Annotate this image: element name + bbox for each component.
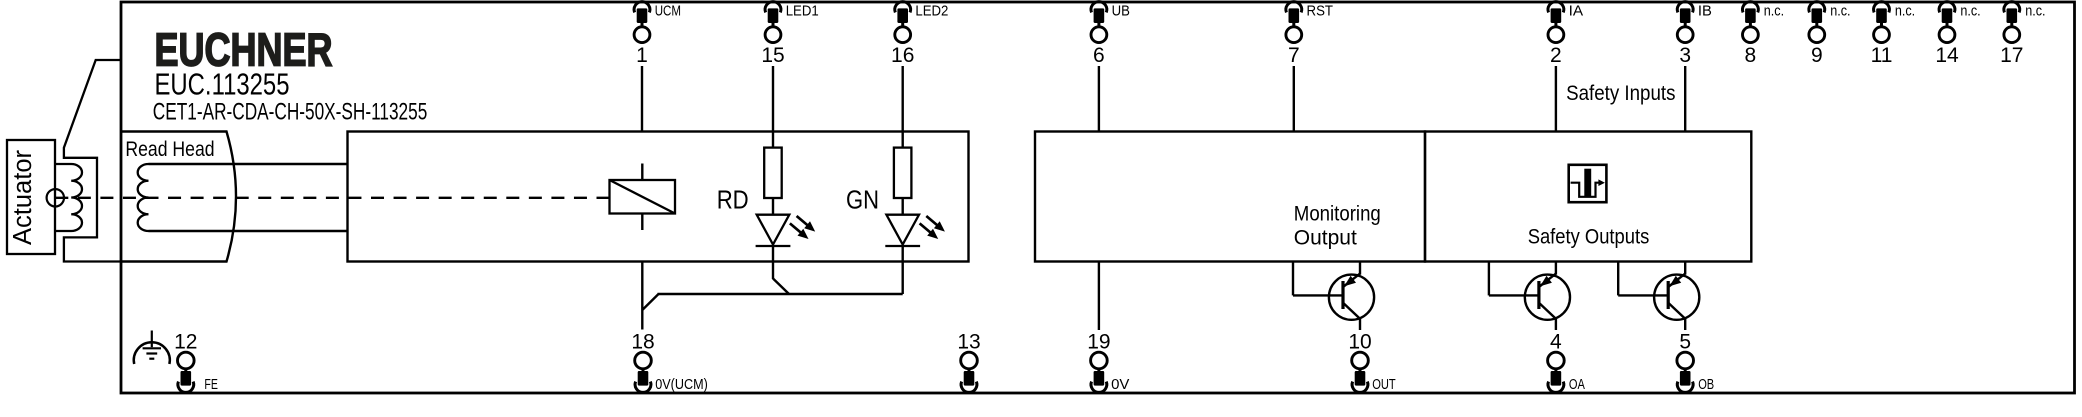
- svg-text:GN: GN: [846, 185, 879, 215]
- svg-text:Actuator: Actuator: [9, 149, 37, 245]
- wire read-head top to control box: [149, 163, 348, 165]
- wire terminal 3 to safety box: [1684, 66, 1686, 132]
- svg-text:2: 2: [1550, 44, 1562, 67]
- actuator coil: [55, 164, 82, 231]
- svg-text:UCM: UCM: [655, 3, 681, 19]
- terminal 16 LED2: [891, 2, 948, 67]
- actuator housing outline: [64, 60, 121, 262]
- svg-text:11: 11: [1871, 44, 1893, 67]
- actuator label: [9, 149, 37, 245]
- terminal 12 FE: [174, 331, 218, 394]
- label Safety Outputs: [1528, 225, 1650, 249]
- svg-text:15: 15: [761, 44, 784, 67]
- type code CET1-AR-CDA-CH-50X-SH-113255: [153, 99, 428, 126]
- svg-text:8: 8: [1745, 44, 1757, 67]
- resistor (GN branch): [894, 148, 912, 198]
- label Monitoring Output: [1294, 202, 1381, 250]
- svg-text:LED1: LED1: [786, 3, 819, 19]
- terminal 5 OB: [1677, 331, 1714, 394]
- svg-text:16: 16: [891, 44, 914, 67]
- transistor Q2 (safety output OA): [1489, 262, 1570, 331]
- svg-text:n.c.: n.c.: [1895, 2, 1915, 19]
- read head box: [121, 132, 236, 262]
- LED GN: [885, 215, 945, 246]
- terminal 3 IB: [1677, 2, 1712, 67]
- svg-text:UB: UB: [1112, 3, 1130, 19]
- svg-text:LED2: LED2: [915, 3, 948, 19]
- LED RD: [756, 215, 816, 246]
- terminal 4 OA: [1548, 331, 1586, 394]
- svg-text:13: 13: [957, 331, 980, 354]
- wire terminal 7 to monitoring box: [1293, 66, 1295, 132]
- svg-text:n.c.: n.c.: [1960, 2, 1980, 19]
- EUCHNER logo: [155, 24, 333, 76]
- svg-text:IA: IA: [1569, 3, 1584, 19]
- svg-text:RST: RST: [1307, 3, 1334, 19]
- svg-text:n.c.: n.c.: [2025, 2, 2045, 19]
- 0V(UCM) bus wire: [658, 293, 903, 295]
- svg-text:FE: FE: [204, 377, 218, 393]
- transistor Q3 (safety output OB): [1618, 262, 1699, 331]
- svg-text:5: 5: [1679, 331, 1691, 354]
- svg-text:0V(UCM): 0V(UCM): [655, 377, 708, 393]
- svg-text:12: 12: [174, 331, 197, 354]
- wire terminal 15 to resistor: [772, 66, 774, 148]
- svg-text:14: 14: [1935, 44, 1959, 67]
- terminal 2 IA: [1548, 2, 1583, 67]
- svg-text:EUC.113255: EUC.113255: [155, 67, 290, 102]
- svg-text:0V: 0V: [1111, 377, 1130, 393]
- terminal 15 LED1: [761, 2, 818, 67]
- terminal 13: [957, 331, 980, 393]
- pulse icon: [1569, 165, 1607, 202]
- svg-text:RD: RD: [717, 185, 749, 215]
- svg-text:19: 19: [1087, 331, 1110, 354]
- svg-text:CET1-AR-CDA-CH-50X-SH-113255: CET1-AR-CDA-CH-50X-SH-113255: [153, 99, 428, 126]
- svg-text:Safety Outputs: Safety Outputs: [1528, 225, 1650, 249]
- wire resistor to LED GN: [902, 198, 904, 215]
- relay K1: [610, 164, 676, 231]
- wire LED RD cathode down: [772, 246, 774, 279]
- control unit box: [348, 132, 969, 262]
- svg-text:18: 18: [631, 331, 654, 354]
- actuator box: [7, 140, 55, 254]
- dashed magnetic coupling centerline: [55, 197, 609, 199]
- wire terminal 6 to monitoring box: [1098, 66, 1100, 132]
- svg-text:OUT: OUT: [1372, 377, 1396, 393]
- wire relay to terminal 18: [641, 262, 643, 330]
- junction tick relay branch: [642, 294, 658, 310]
- svg-text:IB: IB: [1698, 3, 1712, 19]
- svg-text:OA: OA: [1569, 377, 1585, 393]
- terminal 9 n.c.: [1809, 2, 1851, 67]
- terminal 6 UB: [1091, 2, 1130, 67]
- terminal 7 RST: [1286, 2, 1333, 67]
- label Safety Inputs: [1566, 81, 1675, 105]
- svg-text:Read Head: Read Head: [125, 138, 214, 161]
- wire terminal 2 to safety box: [1555, 66, 1557, 132]
- terminal 18 0V(UCM): [631, 331, 707, 394]
- label RD: [717, 185, 749, 215]
- svg-text:3: 3: [1679, 44, 1691, 67]
- svg-text:n.c.: n.c.: [1764, 2, 1784, 19]
- terminal 10 OUT: [1348, 331, 1395, 394]
- wire monitoring box to terminal 19: [1098, 262, 1100, 331]
- transistor Q1 (monitoring output): [1293, 262, 1374, 331]
- svg-text:4: 4: [1550, 331, 1562, 354]
- svg-text:OB: OB: [1698, 377, 1714, 393]
- terminal 19 0V: [1087, 331, 1130, 394]
- label GN: [846, 185, 879, 215]
- terminal 8 n.c.: [1743, 2, 1785, 67]
- svg-text:n.c.: n.c.: [1830, 2, 1850, 19]
- wire terminal 16 to resistor: [902, 66, 904, 148]
- junction tick LED RD branch: [773, 279, 789, 295]
- svg-text:1: 1: [636, 44, 648, 67]
- read head coil: [138, 164, 149, 231]
- svg-text:7: 7: [1288, 44, 1300, 67]
- wire LED GN cathode down: [902, 246, 904, 294]
- wire resistor to LED RD: [772, 198, 774, 215]
- wire read-head bottom to control box: [149, 230, 348, 232]
- article number EUC.113255: [155, 67, 290, 102]
- svg-text:Monitoring: Monitoring: [1294, 202, 1381, 226]
- resistor (RD branch): [764, 148, 782, 198]
- svg-text:17: 17: [2000, 44, 2023, 67]
- monitoring output box: [1035, 132, 1425, 262]
- terminal 1 UCM: [634, 2, 681, 67]
- wire terminal 1 to control box: [641, 66, 643, 132]
- terminal 17 n.c.: [2000, 2, 2045, 67]
- terminal 11 n.c.: [1871, 2, 1916, 67]
- safety outputs box: [1425, 132, 1751, 262]
- svg-text:Output: Output: [1294, 226, 1357, 250]
- read head label: [125, 138, 214, 161]
- svg-text:9: 9: [1811, 44, 1823, 67]
- svg-text:10: 10: [1348, 331, 1371, 354]
- svg-text:Safety Inputs: Safety Inputs: [1566, 81, 1675, 105]
- terminal 14 n.c.: [1935, 2, 1980, 67]
- svg-text:6: 6: [1093, 44, 1105, 67]
- actuator coupling circle: [47, 189, 64, 206]
- functional earth symbol: [134, 331, 170, 365]
